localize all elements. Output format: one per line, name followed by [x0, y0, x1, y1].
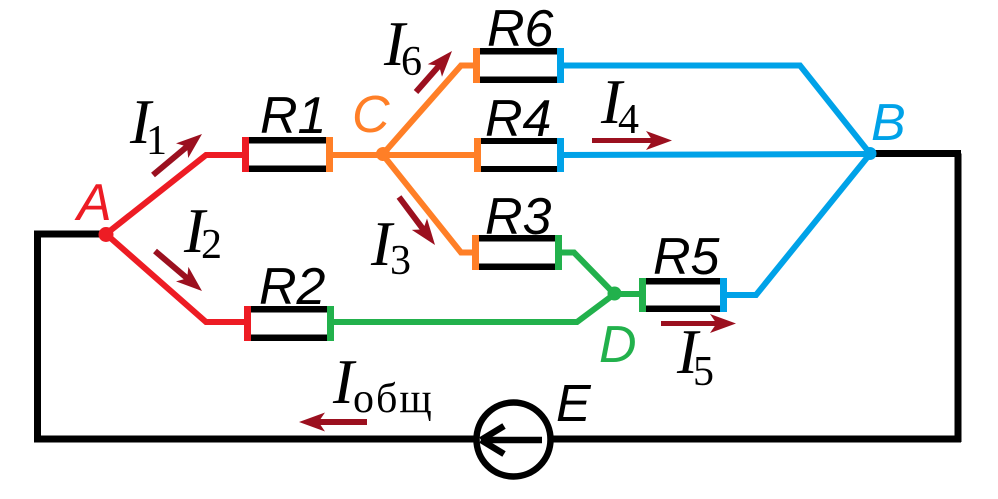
- label I5: [676, 317, 714, 395]
- label I1: [129, 87, 167, 164]
- svg-text:D: D: [599, 316, 637, 374]
- wire blue R4 to B: [560, 154, 870, 155]
- label I-obshch: [332, 347, 434, 422]
- wire black left vertical: [34, 231, 41, 442]
- wire orange C to R3: [383, 155, 474, 253]
- svg-text:5: 5: [693, 349, 714, 395]
- svg-text:B: B: [871, 94, 906, 152]
- wire black source E to bottom right: [553, 436, 961, 443]
- arrow I3: [399, 197, 435, 245]
- resistor R5: [639, 228, 727, 312]
- node D: [608, 287, 622, 301]
- label I6: [383, 9, 422, 85]
- arrow I-obshch: [299, 413, 367, 432]
- svg-text:R1: R1: [260, 87, 326, 145]
- svg-text:R4: R4: [485, 90, 551, 148]
- resistor R6: [473, 0, 564, 83]
- source E circle: [477, 403, 551, 477]
- svg-text:1: 1: [146, 118, 167, 164]
- wire black bottom left to source E: [34, 436, 475, 443]
- label I4: [600, 67, 639, 143]
- wire blue R6 to B: [562, 66, 870, 154]
- wire orange C to R4: [383, 152, 475, 158]
- svg-text:2: 2: [201, 222, 222, 268]
- wire orange R1 to C: [331, 152, 383, 158]
- svg-text:6: 6: [401, 39, 422, 85]
- source E arrow: [481, 426, 542, 454]
- node A: [99, 227, 114, 242]
- label I3: [370, 209, 411, 284]
- resistor R3: [472, 188, 562, 270]
- svg-text:A: A: [74, 174, 112, 232]
- wire red A to R1: [106, 155, 246, 234]
- resistor R1: [242, 87, 333, 172]
- node C: [376, 147, 390, 161]
- label I2: [183, 196, 222, 268]
- resistor R2: [244, 258, 334, 341]
- svg-text:R6: R6: [487, 0, 554, 58]
- arrow I4: [592, 131, 672, 150]
- wire green R2 to D: [332, 294, 615, 322]
- svg-text:R2: R2: [259, 258, 326, 316]
- wire black right vertical: [955, 154, 962, 443]
- wire red A to R2: [106, 234, 248, 322]
- arrow I6: [416, 51, 452, 92]
- resistor R4: [474, 90, 564, 172]
- svg-text:E: E: [556, 375, 592, 433]
- wire black node B to right edge: [870, 150, 961, 157]
- svg-text:общ: общ: [353, 376, 434, 422]
- wire orange C to R6: [383, 66, 475, 155]
- wire blue R5 to B: [725, 154, 870, 295]
- svg-text:3: 3: [390, 238, 411, 284]
- wire green R3 to D: [560, 253, 615, 295]
- wire black A to left edge: [34, 231, 106, 238]
- svg-text:4: 4: [618, 97, 639, 143]
- svg-text:R3: R3: [485, 188, 552, 246]
- arrow I5: [661, 314, 736, 333]
- arrow I1: [153, 134, 202, 175]
- wire green D to R5: [615, 291, 643, 297]
- svg-text:R5: R5: [653, 228, 721, 286]
- arrow I2: [155, 251, 202, 291]
- svg-text:C: C: [352, 86, 390, 144]
- node B: [864, 147, 877, 160]
